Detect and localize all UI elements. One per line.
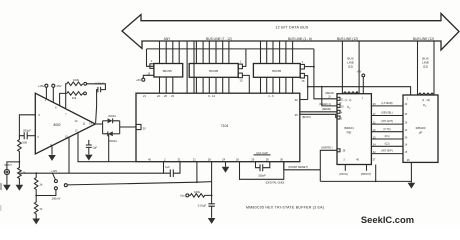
svg-text:IM6100: IM6100 bbox=[416, 126, 426, 130]
svg-text:21: 21 bbox=[143, 94, 146, 98]
U4 output wires bbox=[261, 77, 293, 93]
svg-text:(INT SKP): (INT SKP) bbox=[381, 150, 393, 153]
bus tap wires to buffer U2 (8095 #1) bbox=[160, 41, 180, 64]
wire U4 pin15 over to U7 (LXMAR run) bbox=[304, 76, 410, 100]
ground at U5 pin24 bbox=[225, 162, 227, 167]
svg-text:15: 15 bbox=[405, 151, 408, 154]
wire U2 pin1 enable bbox=[147, 49, 154, 66]
wire READ 2 from rail bbox=[314, 49, 337, 99]
svg-text:40: 40 bbox=[148, 157, 151, 161]
svg-text:-15V: -15V bbox=[56, 84, 62, 88]
svg-text:8: 8 bbox=[39, 114, 41, 117]
svg-text:10: 10 bbox=[75, 120, 78, 123]
svg-text:(READ 1): (READ 1) bbox=[319, 102, 331, 106]
svg-text:(DIGITAL GND): (DIGITAL GND) bbox=[266, 181, 285, 185]
svg-text:PIE: PIE bbox=[347, 131, 352, 135]
svg-text:(C2): (C2) bbox=[385, 142, 390, 145]
wire U1 output to diodes bbox=[95, 123, 102, 125]
svg-text:BUS LINE (7 - 12): BUS LINE (7 - 12) bbox=[206, 37, 232, 41]
svg-text:36: 36 bbox=[343, 150, 346, 153]
svg-text:20: 20 bbox=[164, 94, 167, 98]
U7 left pin numbers bbox=[405, 103, 408, 154]
+5V terminal at U2 pin 15 bbox=[136, 71, 154, 82]
U2 output wires bbox=[160, 77, 173, 93]
svg-text:1: 1 bbox=[407, 98, 409, 101]
wire U5 pin22 stub bbox=[300, 99, 308, 101]
U6 pin37 to ground rail bbox=[375, 165, 377, 182]
svg-text:BUS LINE (12): BUS LINE (12) bbox=[337, 37, 358, 41]
svg-text:X: X bbox=[349, 108, 351, 110]
capacitor 0.22uF bbox=[87, 82, 106, 124]
svg-text:200µF: 200µF bbox=[23, 129, 31, 133]
wire U1 pin13 to analog rail bbox=[68, 137, 70, 173]
svg-text:BUS LINE (1 - 6): BUS LINE (1 - 6) bbox=[288, 37, 312, 41]
-15V terminal bbox=[52, 84, 62, 103]
pin 1 square U4 bbox=[300, 64, 304, 69]
svg-text:23: 23 bbox=[171, 94, 174, 98]
svg-text:+10V: +10V bbox=[51, 169, 57, 173]
svg-text:(12): (12) bbox=[348, 65, 353, 69]
svg-text:30: 30 bbox=[405, 136, 408, 139]
svg-text:40: 40 bbox=[356, 159, 359, 162]
diode rail right bbox=[119, 121, 121, 134]
wire U1 pin12 down bbox=[78, 133, 136, 162]
svg-text:CLK CAP: CLK CAP bbox=[256, 151, 268, 155]
svg-text:2: 2 bbox=[164, 157, 166, 161]
bus tap wires to buffer U4 (8095 #3) bbox=[261, 41, 293, 64]
ADC U5 ICL7104 bbox=[136, 93, 300, 162]
svg-text:(DEVSEL): (DEVSEL) bbox=[381, 112, 393, 115]
svg-text:24: 24 bbox=[222, 157, 225, 161]
resistor 500 bbox=[18, 136, 28, 162]
buffer U3 8095 bbox=[189, 64, 238, 78]
svg-text:Vcc: Vcc bbox=[180, 194, 185, 198]
buffer U2 8095 bbox=[154, 64, 183, 78]
capacitor 0.01uF bbox=[198, 203, 215, 217]
wire 100k left leg bbox=[66, 84, 67, 109]
svg-text:33: 33 bbox=[405, 113, 408, 116]
svg-text:ANY: ANY bbox=[164, 37, 171, 41]
svg-text:8052: 8052 bbox=[53, 123, 60, 127]
svg-text:(PR IN): (PR IN) bbox=[339, 173, 348, 176]
clock capacitor 150pF bbox=[256, 162, 270, 178]
svg-text:3: 3 bbox=[37, 136, 39, 139]
switch contact 100mV bbox=[52, 187, 61, 201]
wire SEND bbox=[300, 111, 337, 113]
svg-text:+5V: +5V bbox=[136, 78, 141, 82]
ground at jack bbox=[3, 185, 11, 191]
svg-text:30: 30 bbox=[143, 126, 146, 130]
svg-text:20: 20 bbox=[341, 107, 344, 109]
svg-text:1: 1 bbox=[45, 99, 47, 102]
Vcc terminal and resistor 100k bbox=[180, 190, 212, 198]
svg-text:1µF: 1µF bbox=[92, 145, 97, 149]
svg-text:'80C95: '80C95 bbox=[272, 69, 282, 73]
U6 left edge pin digits bbox=[341, 100, 344, 121]
svg-text:µP: µP bbox=[419, 131, 423, 135]
svg-text:1k: 1k bbox=[39, 182, 43, 186]
svg-text:+15V: +15V bbox=[38, 84, 45, 88]
svg-text:40: 40 bbox=[405, 103, 408, 106]
svg-text:(SEND): (SEND) bbox=[322, 107, 331, 111]
svg-text:29: 29 bbox=[405, 121, 408, 124]
pin 15 square U4 bbox=[300, 73, 304, 78]
svg-text:1µF: 1µF bbox=[165, 165, 170, 169]
svg-text:28: 28 bbox=[208, 157, 211, 161]
svg-text:12 BIT DATA BUS: 12 BIT DATA BUS bbox=[275, 26, 309, 30]
svg-text:6: 6 bbox=[55, 107, 57, 110]
svg-text:'80C95: '80C95 bbox=[162, 69, 172, 73]
wire U5 pin28 chain bbox=[211, 162, 213, 204]
ground below 1k bbox=[16, 185, 24, 191]
ground below 0.01uF bbox=[208, 218, 216, 224]
svg-text:4: 4 bbox=[341, 113, 343, 115]
svg-text:37: 37 bbox=[373, 159, 376, 162]
PIE U6 IM6101 bbox=[337, 94, 371, 165]
svg-text:9 - 14: 9 - 14 bbox=[208, 94, 215, 98]
svg-text:26: 26 bbox=[295, 113, 298, 117]
U3 output wires bbox=[196, 77, 229, 93]
svg-text:IN914: IN914 bbox=[108, 114, 116, 118]
enable rail wire bbox=[147, 48, 314, 50]
capacitor 1uF at U1 bbox=[86, 140, 98, 155]
U6 bottom pin PR OUT bbox=[366, 165, 368, 171]
wire divider tap to switch contact bbox=[36, 190, 56, 196]
bus bypass wires to U5 top bbox=[187, 41, 194, 93]
wire U3 pin15 down to U5 bbox=[242, 75, 249, 93]
wire diodes to U5 pin 30 bbox=[120, 126, 136, 128]
U6 right edge pin numbers bbox=[373, 103, 376, 154]
wire U1 pin9 to ground bbox=[51, 146, 53, 155]
pin 15 square U3 bbox=[238, 73, 242, 78]
ground at U1 pin9 bbox=[48, 155, 56, 161]
svg-text:29: 29 bbox=[251, 157, 254, 161]
ground below 1uF bbox=[85, 155, 93, 161]
bus line (12) pair to U6 bbox=[342, 41, 359, 94]
interface wires U6 to U7 bbox=[371, 102, 403, 154]
switch S1 wiper bbox=[64, 182, 197, 187]
svg-text:MM80C95 HEX TRI-STATE BUFFER (: MM80C95 HEX TRI-STATE BUFFER (3 EA) bbox=[246, 206, 324, 210]
svg-text:28: 28 bbox=[266, 157, 269, 161]
svg-text:(X TC): (X TC) bbox=[383, 128, 390, 131]
wire U5 pin21 to switch line bbox=[196, 162, 198, 183]
wire diode bottom to U5 corner bbox=[108, 134, 110, 162]
svg-text:22: 22 bbox=[157, 94, 160, 98]
diode rail left bbox=[102, 121, 104, 134]
U6 bottom pin PR IN bbox=[344, 165, 346, 171]
buffer U4 8095 bbox=[253, 64, 300, 78]
resistor 7k bbox=[34, 196, 43, 219]
+5V terminal at U6 bbox=[357, 69, 365, 93]
svg-text:7k: 7k bbox=[39, 207, 43, 211]
svg-text:11: 11 bbox=[83, 123, 86, 126]
svg-text:INPUT: INPUT bbox=[4, 163, 12, 167]
wire U3 pin1 to enable rail bbox=[242, 49, 246, 67]
svg-text:SeekIC.com: SeekIC.com bbox=[361, 214, 414, 225]
svg-text:100k: 100k bbox=[73, 78, 80, 82]
svg-text:100k: 100k bbox=[194, 190, 201, 194]
bus tap wires to buffer U3 (8095 #2) bbox=[196, 41, 229, 64]
wire WRITE bbox=[320, 150, 337, 170]
+15V terminal bbox=[38, 84, 48, 99]
diode D1 IN914 bbox=[103, 114, 120, 123]
diode D2 IN914 bbox=[103, 131, 120, 143]
feedback loop wire U1 pin8 bbox=[19, 115, 35, 136]
svg-text:(INT GNT): (INT GNT) bbox=[381, 120, 393, 123]
svg-text:500: 500 bbox=[22, 141, 27, 145]
svg-text:22: 22 bbox=[295, 98, 298, 102]
svg-text:1: 1 bbox=[240, 60, 242, 64]
svg-text:13: 13 bbox=[405, 129, 408, 132]
svg-text:(START RESET): (START RESET) bbox=[288, 165, 308, 169]
svg-text:(WRITE ): (WRITE ) bbox=[321, 146, 332, 150]
svg-text:1 - 6: 1 - 6 bbox=[268, 94, 274, 98]
pin 1 square U2 bbox=[150, 64, 154, 69]
tri-state mark U6 bbox=[343, 92, 359, 94]
pin 1 square U3 bbox=[238, 64, 242, 69]
wire START RESET bbox=[284, 162, 321, 170]
svg-text:(LX MAR): (LX MAR) bbox=[382, 102, 393, 105]
capacitor 1uF at U5 pins 2/31 bbox=[164, 162, 181, 177]
wire 10k left leg bbox=[60, 93, 67, 105]
U6 left edge pin squares bbox=[337, 97, 340, 100]
svg-text:0.01µF: 0.01µF bbox=[198, 203, 207, 207]
svg-text:(PROUT): (PROUT) bbox=[361, 173, 372, 176]
svg-text:+5V: +5V bbox=[357, 69, 362, 73]
svg-text:18: 18 bbox=[236, 157, 239, 161]
svg-text:BUS LINE (12): BUS LINE (12) bbox=[413, 37, 434, 41]
svg-text:150pF: 150pF bbox=[258, 174, 266, 178]
resistor 1k input bbox=[18, 162, 26, 185]
svg-text:X: X bbox=[425, 106, 427, 108]
svg-text:IN914: IN914 bbox=[109, 139, 117, 143]
svg-text:14: 14 bbox=[405, 144, 408, 147]
svg-text:3: 3 bbox=[341, 118, 343, 120]
svg-text:7104: 7104 bbox=[221, 124, 229, 128]
input jack J1 bbox=[4, 162, 19, 185]
svg-text:15: 15 bbox=[240, 79, 243, 83]
CPU U7 IM6100 bbox=[403, 95, 438, 162]
resistor 10k bbox=[67, 92, 87, 100]
svg-text:3: 3 bbox=[343, 159, 345, 162]
analog rail wire to 1uF bbox=[19, 172, 163, 174]
ground below 7k bbox=[32, 219, 40, 225]
wire BUSY bbox=[300, 114, 337, 117]
svg-text:100mV: 100mV bbox=[52, 197, 61, 201]
resistor 100k bbox=[67, 78, 87, 86]
svg-text:1: 1 bbox=[151, 59, 153, 63]
scan smudge left edge bbox=[0, 183, 2, 190]
wire READ 1 bbox=[322, 87, 337, 106]
svg-text:36: 36 bbox=[280, 157, 283, 161]
svg-text:31: 31 bbox=[178, 157, 181, 161]
svg-text:10k: 10k bbox=[72, 96, 77, 100]
svg-text:(1 - 2): (1 - 2) bbox=[345, 99, 352, 102]
svg-text:(1 - 12): (1 - 12) bbox=[422, 99, 430, 102]
U5 bottom pin numbers bbox=[148, 157, 283, 161]
svg-text:7: 7 bbox=[362, 98, 364, 101]
svg-text:(BUSY): (BUSY) bbox=[302, 115, 311, 119]
svg-text:IM6101: IM6101 bbox=[344, 126, 354, 130]
svg-text:(READ: (READ bbox=[325, 91, 333, 95]
svg-text:1: 1 bbox=[302, 60, 304, 64]
svg-text:26: 26 bbox=[407, 159, 410, 162]
svg-text:21: 21 bbox=[193, 157, 196, 161]
wire DIGITAL GND jog bbox=[240, 162, 284, 180]
U1 pin numbers bbox=[37, 99, 92, 147]
resistor divider 1k bbox=[34, 173, 43, 195]
12 bit data bus arrow bbox=[122, 14, 459, 51]
svg-text:7: 7 bbox=[65, 114, 67, 117]
capacitor 200uF bbox=[23, 129, 35, 140]
bus line (12) pair to U7 bbox=[418, 41, 435, 95]
svg-text:'80C95: '80C95 bbox=[209, 69, 219, 73]
switch contact +10V bbox=[51, 169, 57, 183]
U7 pin26 ground bbox=[410, 162, 412, 182]
svg-text:(C1): (C1) bbox=[385, 135, 390, 138]
svg-text:(12): (12) bbox=[423, 65, 428, 69]
wire U5 pin36 start reset drop handled above bbox=[283, 162, 285, 170]
wire U4 pin1 to rail drop bbox=[304, 66, 314, 68]
tri-state mark U7 bbox=[418, 93, 434, 95]
op-amp U1 8052 bbox=[35, 93, 95, 154]
svg-text:15: 15 bbox=[302, 79, 305, 83]
digital ground rail bbox=[197, 170, 412, 183]
svg-text:2): 2) bbox=[328, 94, 330, 98]
